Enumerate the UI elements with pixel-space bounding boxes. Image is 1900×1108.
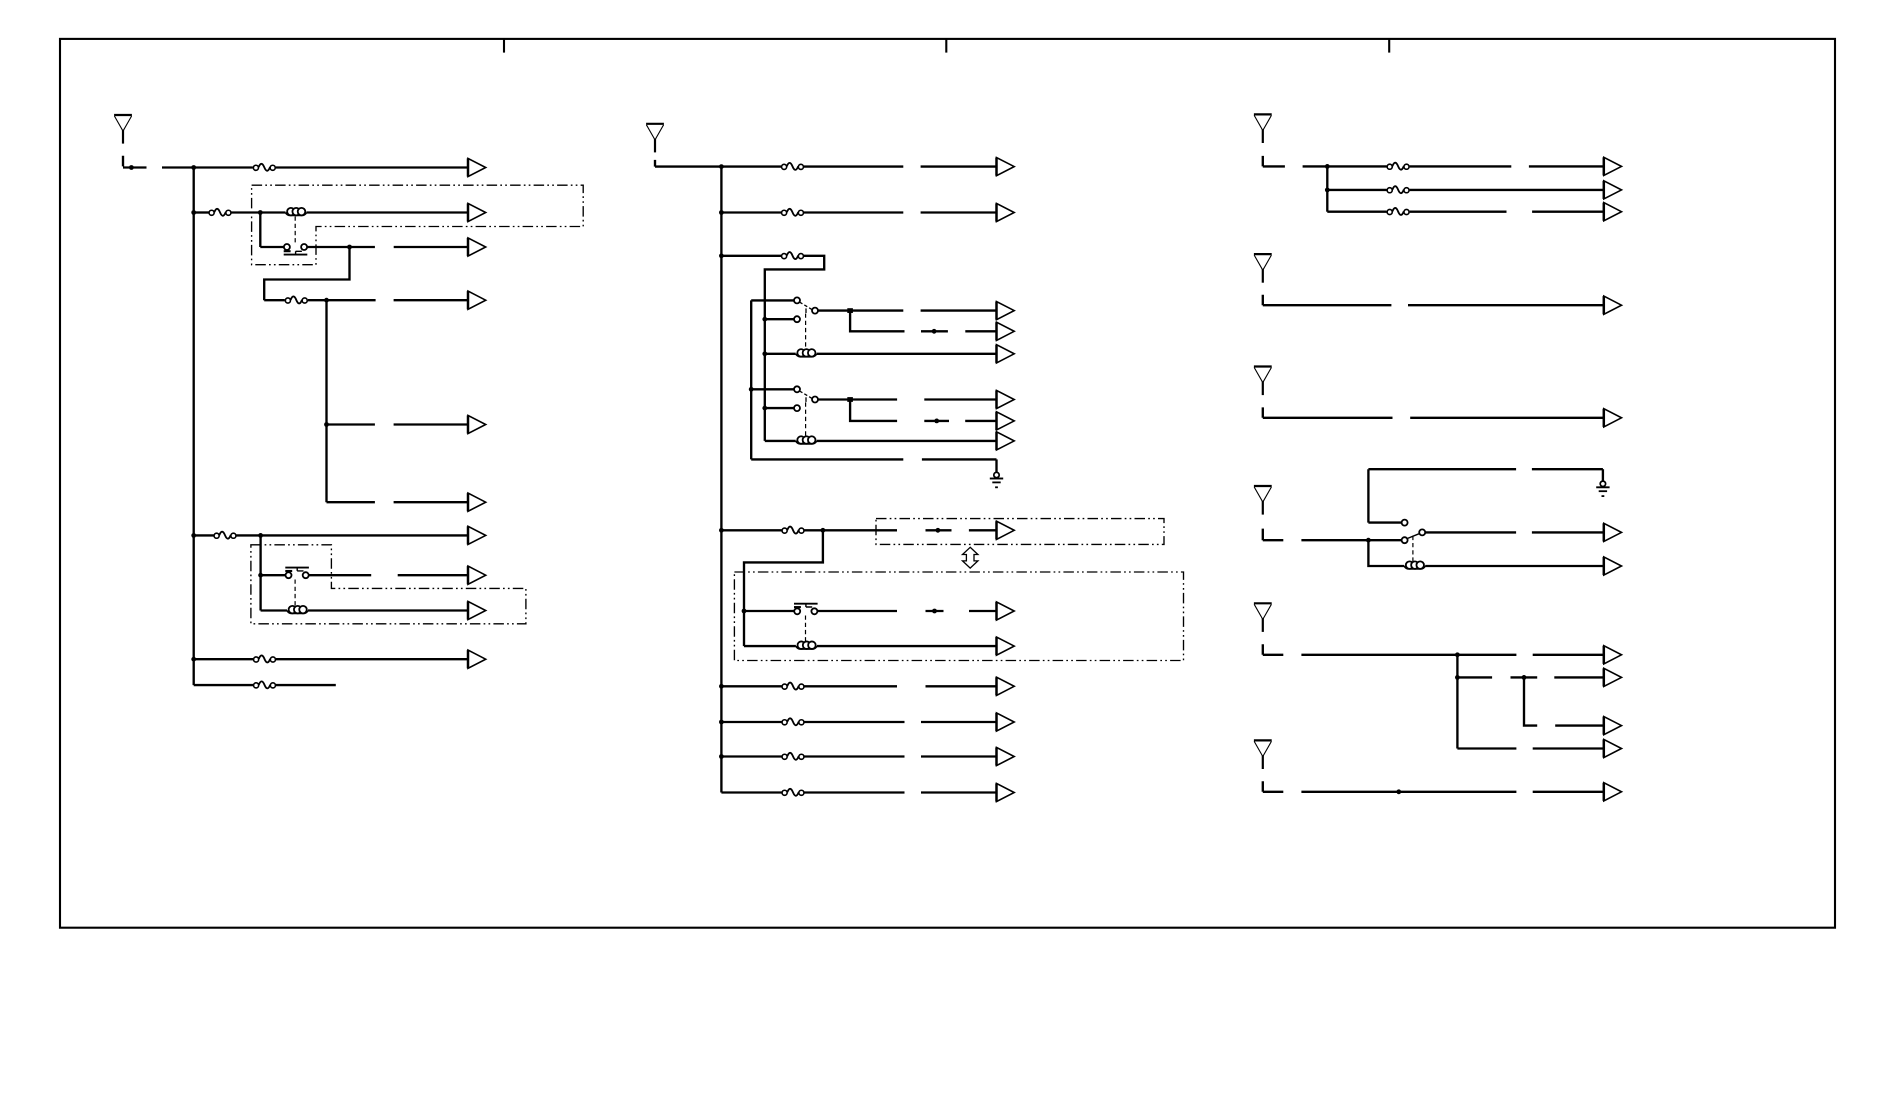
wire row6 left segment (327, 501, 375, 503)
main bus 2 vertical (720, 167, 722, 793)
wire R1 common to gap (1425, 531, 1516, 533)
wire row11 bus to fuse (194, 684, 253, 686)
branch bus r rows1-3 (1326, 166, 1328, 211)
connector arrow m-row722 (997, 713, 1015, 731)
relay R1 mechanical link (1412, 536, 1414, 563)
wire coil M1 left (765, 353, 796, 355)
wire M2 drop jog (850, 400, 897, 421)
relay K2 mechanical link (294, 580, 296, 608)
power feed symbol 5 (1254, 367, 1272, 396)
border tick mark 3 (1388, 39, 1390, 53)
connector arrow row5 (468, 415, 486, 433)
connector arrow m-row1 (997, 158, 1015, 176)
wire m-row2 fuse to gap (804, 211, 903, 213)
junction bus2 m-row686 (719, 684, 724, 689)
connector arrow r-row2 (1604, 181, 1622, 199)
junction r-row655 (1455, 652, 1460, 657)
wire m-drop2 mid segment (924, 420, 949, 422)
wire r ground-return left (1368, 468, 1516, 470)
fuse m-row3 (782, 252, 804, 259)
wire r-row2 fuse to arrow (1410, 189, 1604, 191)
junction r relay feed (1366, 538, 1371, 543)
wire m-row686 fuse to gap (805, 685, 898, 687)
connector arrow R1 common (1604, 523, 1622, 541)
wire r-row2 to fuse (1327, 189, 1386, 191)
relay M1 lower throw wire (765, 318, 794, 320)
junction m-drop2 splice (934, 419, 939, 424)
wire coil M2 to arrow (817, 440, 997, 442)
wire r-row539 left segment (1301, 539, 1401, 541)
connector box upper (dash-dot) (876, 519, 1164, 545)
connector arrow row8 (468, 566, 486, 584)
wire coil M1 to arrow (817, 353, 997, 355)
power feed 8 lower stem and elbow (1263, 781, 1284, 792)
wire r ground-return right of gap (1532, 468, 1603, 470)
junction M3 splice (932, 609, 937, 614)
wire row7 fuse to arrow (237, 534, 469, 536)
wire coil M2 left (765, 440, 796, 442)
junction row8 (258, 573, 263, 578)
junction r bus top (1325, 164, 1330, 169)
junction r-row677 splice (1522, 675, 1527, 680)
wire m-row757 right of gap (921, 755, 997, 757)
wire row5 left segment (327, 423, 375, 425)
wire r-row748 right of gap (1533, 747, 1604, 749)
wire m-row722 to fuse (721, 721, 781, 723)
wire m-row793 to fuse (721, 791, 781, 793)
wire M1 common right of gap (921, 309, 997, 311)
junction on power feed 1 tail (129, 165, 134, 170)
connector arrow m-drop1 (997, 322, 1015, 340)
relay K2 enclosure box (251, 545, 526, 624)
connector arrow r-row726 (1604, 717, 1622, 735)
wire row1 left segment (162, 166, 253, 168)
wire r-row726 right of gap (1555, 724, 1604, 726)
relay M3 mechanical link (805, 616, 807, 644)
relay R1 changeover contact (1402, 520, 1426, 544)
wire m-row530 right segment (969, 529, 997, 531)
junction relay M2 common (847, 397, 853, 402)
wire r-row792 right of gap (1533, 791, 1604, 793)
connector arrow row10 (468, 650, 486, 668)
wire row4 to fuse (264, 299, 285, 301)
wire jog row530 to relay M3 (744, 530, 823, 646)
connector arrow r-row305 (1604, 296, 1622, 314)
wire row8 right of gap (398, 574, 468, 576)
relay K1 contact (284, 244, 308, 255)
power feed 4 lower stem and elbow (1263, 295, 1392, 305)
wire row7 bus to fuse (194, 534, 214, 536)
junction bus2 row530 (719, 528, 724, 533)
wire m-row530 to fuse (721, 529, 781, 531)
relay M3 enclosure box (dash-dot) (734, 572, 1183, 661)
junction bus2 row3 (719, 253, 724, 258)
wire r-row1 fuse to gap (1410, 165, 1512, 167)
connector arrow m-row793 (997, 783, 1015, 801)
main bus 1 vertical (193, 168, 195, 686)
junction lower throw M2 (762, 406, 767, 411)
power feed symbol 3 (1254, 114, 1272, 143)
connector arrow r-row3 (1604, 203, 1622, 221)
junction bus1 row7 (191, 533, 196, 538)
wire row6 right of gap (394, 501, 468, 503)
wire r-row418 right of gap (1410, 417, 1604, 419)
wire row10 bus to fuse (194, 658, 253, 660)
fuse m-row757 (782, 753, 804, 760)
wire r-row3 right of gap (1532, 211, 1604, 213)
junction r-row792 splice (1396, 789, 1401, 794)
ground symbol middle (990, 472, 1003, 487)
wire M3 to contact (744, 610, 794, 612)
connector arrow M2 common (997, 390, 1015, 408)
junction row4 (324, 298, 329, 303)
wire row4 fuse to gap (308, 299, 376, 301)
wire row3 right of gap (394, 246, 468, 248)
relay M2 coil (796, 436, 817, 444)
wire row2 bus to fuse (194, 211, 209, 213)
wire M1 drop jog (850, 311, 904, 332)
wire m-row722 right of gap (921, 721, 997, 723)
wire m-row793 right of gap (921, 791, 997, 793)
wire m-row722 fuse to gap (805, 721, 905, 723)
junction row3 (347, 245, 352, 250)
wire r-row3 fuse to gap (1410, 211, 1507, 213)
wire r-row677 mid segment (1511, 676, 1538, 678)
wire r-row1 right of gap (1529, 165, 1604, 167)
relay K2 coil (287, 606, 308, 614)
relay M3 contact (794, 604, 818, 615)
relay K1 enclosure box (252, 185, 584, 265)
power feed 3 lower stem and elbow (1263, 156, 1285, 167)
fuse row4 (285, 296, 307, 303)
connector arrow R1 coil (1604, 557, 1622, 575)
wire coil M3 to arrow (817, 645, 997, 647)
wire M2 common right of gap (924, 398, 996, 400)
wire r-row792 left segment (1301, 791, 1516, 793)
connector arrow row9 (468, 601, 486, 619)
junction bus2 m-row757 (719, 754, 724, 759)
connector arrow m-drop2 (997, 412, 1015, 430)
connector arrow r-row748 (1604, 739, 1622, 757)
wire r relay upper throw (1368, 469, 1401, 522)
relay M2 mechanical link (805, 402, 807, 436)
junction upper throw M2 (749, 387, 754, 392)
junction relay M3 feed (742, 609, 747, 614)
wire row5 right of gap (394, 423, 468, 425)
relay M1 coil (796, 349, 817, 357)
wire row2 fuse to relay (232, 211, 286, 213)
relay M1 common wire (818, 309, 848, 311)
wire m-row686 to fuse (721, 685, 781, 687)
connector arrow M3 (997, 602, 1015, 620)
relay K1 coil (286, 208, 307, 216)
relay K2 contact (285, 568, 309, 579)
connector arrow coil M1 (997, 345, 1015, 363)
wire m-row2 right of gap (921, 211, 997, 213)
page border frame (60, 39, 1835, 928)
power feed symbol 2 (646, 124, 664, 153)
connector arrow m-row757 (997, 747, 1015, 765)
wire r-row748 left segment (1457, 747, 1516, 749)
junction bus2 m-row722 (719, 720, 724, 725)
fuse m-row722 (782, 718, 804, 725)
wire jog from row3 to row4 (264, 247, 349, 300)
wire r drop 677 to 726 (1524, 677, 1537, 725)
junction r-row2 (1325, 188, 1330, 193)
connector arrow m-row686 (997, 677, 1015, 695)
wire r-row1 left of fuse (1303, 165, 1387, 167)
power feed 1 lower stem and elbow (123, 156, 147, 168)
connector arrow m-row530 (997, 521, 1015, 539)
connector arrow r-row655 (1604, 646, 1622, 664)
wire row9 to coil (261, 609, 287, 611)
connector arrow row3 (468, 238, 486, 256)
wire ground row right of gap (922, 458, 997, 460)
relay K1 mechanical link (294, 217, 296, 244)
wire R1 common right of gap (1532, 531, 1604, 533)
wire r-row305 right of gap (1408, 304, 1604, 306)
junction coil M1 feed (762, 351, 767, 356)
branch bus row4-row6 (325, 300, 327, 502)
junction m-row530 (821, 528, 826, 533)
wire m-row3 jog down-left (765, 256, 824, 441)
connector arrow r-row1 (1604, 157, 1622, 175)
wire m-row1 fuse to gap (804, 165, 903, 167)
continuation arrow symbol (963, 547, 978, 568)
fuse r-row3 (1387, 208, 1409, 215)
relay M1 upper throw wire (751, 299, 794, 301)
wire row11 fuse stub (276, 684, 336, 686)
junction bus2 top (719, 164, 724, 169)
power feed symbol 8 (1254, 740, 1272, 769)
wire row3 to contact (260, 246, 284, 248)
junction row5 (324, 422, 329, 427)
wire K1 feed drop (259, 213, 261, 248)
connector arrow row6 (468, 493, 486, 511)
relay M2 common wire (818, 398, 848, 400)
relay M2 changeover contact (794, 386, 818, 411)
wire ground row left (751, 458, 903, 460)
junction lower throw M1 (762, 317, 767, 322)
wire row1 to arrow (276, 166, 468, 168)
power feed 6 lower stem and elbow (1263, 529, 1284, 541)
connector arrow coil M3 (997, 637, 1015, 655)
relay M1 mechanical link (805, 314, 807, 350)
wire M1 common to gap (853, 309, 904, 311)
power feed 5 lower stem and elbow (1263, 407, 1393, 417)
fuse row11 (254, 681, 276, 688)
border tick mark 1 (503, 39, 505, 53)
connector arrow row2 (468, 203, 486, 221)
connector arrow M1 common (997, 302, 1015, 320)
fuse r-row2 (1387, 186, 1409, 193)
power feed 7 lower stem and elbow (1263, 644, 1284, 655)
junction bus2 row2 (719, 210, 724, 215)
junction relay K2 feed (258, 533, 263, 538)
power feed symbol 7 (1254, 603, 1272, 632)
wire m-row757 fuse to gap (805, 755, 905, 757)
power feed symbol 6 (1254, 486, 1272, 515)
wire M3 mid segment (926, 610, 944, 612)
wire m-row686 right of gap (926, 685, 997, 687)
wire m-row793 fuse to gap (805, 791, 905, 793)
wire R1 coil feed jog (1368, 540, 1404, 566)
wire m-drop1 right segment (965, 330, 996, 332)
connector arrow r-row677 (1604, 668, 1622, 686)
connector arrow row7 (468, 526, 486, 544)
fuse m-row793 (782, 789, 804, 796)
wire m-row530 mid segment (926, 529, 952, 531)
wire row8 to contact (261, 574, 286, 576)
relay M1 changeover contact (794, 297, 818, 322)
wire r-row655 right of gap (1533, 654, 1604, 656)
wire R1 coil to arrow (1425, 565, 1604, 567)
ground symbol right (1596, 481, 1609, 496)
wire m-row2 to fuse (721, 211, 781, 213)
power feed symbol 4 (1254, 254, 1272, 283)
wire r-row3 to fuse (1327, 211, 1386, 213)
wire M3 contact to gap (818, 610, 897, 612)
junction relay K1 feed (258, 210, 263, 215)
wire r-row655 left segment (1301, 654, 1516, 656)
wire m-row1 right of gap (921, 165, 997, 167)
fuse row7 (214, 532, 236, 539)
fuse m-row2 (782, 209, 804, 216)
relay M3 coil (796, 641, 817, 649)
wire m-row1 to fuse (700, 165, 781, 167)
wire m-drop2 right segment (965, 420, 996, 422)
junction relay M1 common (847, 308, 853, 313)
wire M3 right segment (969, 610, 997, 612)
fuse row10 (254, 655, 276, 662)
ladder bus left (throw returns) (750, 300, 752, 459)
wire r ground-return drop (1602, 469, 1604, 481)
connector arrow r-row418 (1604, 409, 1622, 427)
fuse m-row530 (782, 527, 804, 534)
fusible link row1 (253, 164, 275, 171)
connector arrow m-row2 (997, 203, 1015, 221)
fuse row2 (209, 209, 231, 216)
wire row10 fuse to arrow (276, 658, 468, 660)
relay M2 lower throw wire (765, 407, 794, 409)
wire m-row757 to fuse (721, 755, 781, 757)
wire r-row677 left segment (1457, 676, 1492, 678)
fuse m-row1 (782, 163, 804, 170)
wire r-row677 right segment (1554, 676, 1604, 678)
connector arrow row4 (468, 291, 486, 309)
wire M2 common to gap (853, 398, 898, 400)
wire m-row3 to fuse (721, 255, 781, 257)
junction bus1 top (191, 165, 196, 170)
relay M2 upper throw wire (751, 388, 794, 390)
relay R1 coil (1404, 561, 1425, 569)
wire m-row530 fuse to gap (805, 529, 898, 531)
junction r-row677 (1455, 675, 1460, 680)
border tick mark 2 (945, 39, 947, 53)
wire row8 contact to gap (309, 574, 371, 576)
fuse m-row686 (782, 683, 804, 690)
power feed 2 lower stem and elbow (655, 160, 700, 167)
junction bus1 row2 (191, 210, 196, 215)
wire K2 feed drop (259, 535, 261, 610)
connector arrow r-row792 (1604, 783, 1622, 801)
wire coil M3 left (744, 645, 796, 647)
power feed symbol 1 (battery) (114, 115, 132, 144)
wire row3 contact to junction (307, 246, 375, 248)
connector arrow row1 (468, 158, 486, 176)
wire row4 right of gap (394, 299, 468, 301)
connector arrow coil M2 (997, 432, 1015, 450)
wire row2 coil to arrow (307, 211, 469, 213)
wire ground row drop (995, 459, 997, 472)
junction m-row530 splice (936, 528, 941, 533)
wire row9 coil to arrow (308, 609, 468, 611)
fuse r-row1 (1387, 163, 1409, 170)
junction bus1 row10 (191, 657, 196, 662)
branch bus r rows655-748 (1456, 655, 1458, 749)
junction m-drop1 splice (932, 329, 937, 334)
wire m-drop1 mid segment (921, 330, 948, 332)
